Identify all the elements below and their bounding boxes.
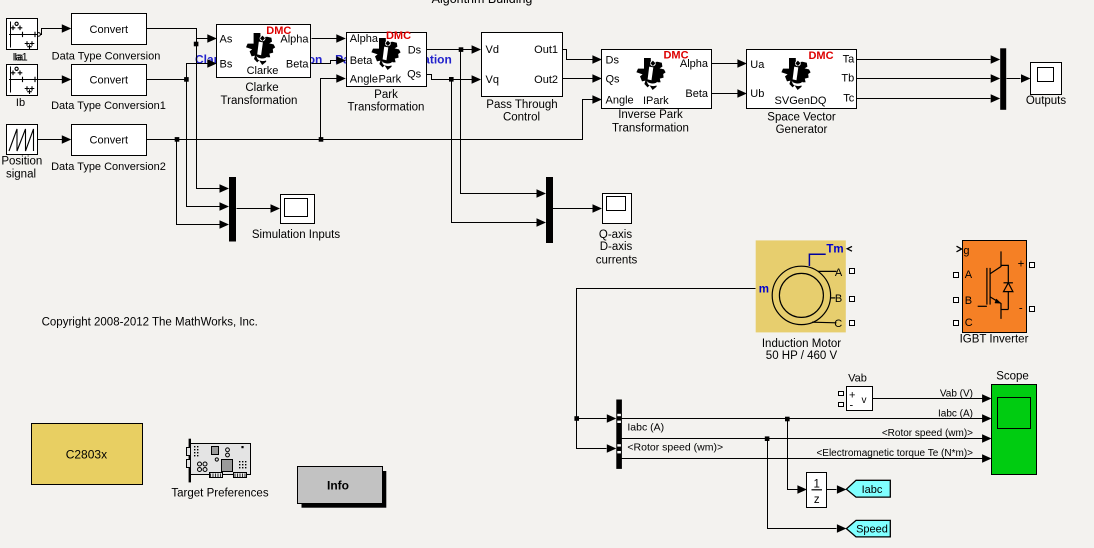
svg-text:DMC: DMC xyxy=(386,30,411,42)
Vab port square plus xyxy=(839,392,844,396)
svg-text:Inverse Park: Inverse Park xyxy=(618,109,683,121)
bus selector bar xyxy=(616,400,622,469)
svg-text:Q-axis: Q-axis xyxy=(599,229,632,241)
svg-text:<Electromagnetic torque Te (N*: <Electromagnetic torque Te (N*m)> xyxy=(816,448,973,459)
svg-text:Data Type Conversion1: Data Type Conversion1 xyxy=(51,100,166,112)
svg-text:Park: Park xyxy=(379,74,402,86)
svg-text:Ds: Ds xyxy=(606,54,620,66)
svg-text:g: g xyxy=(963,245,969,257)
svg-text:DMC: DMC xyxy=(663,50,688,62)
svg-text:DMC: DMC xyxy=(808,50,833,62)
junction dot on As branch xyxy=(194,42,199,47)
svg-text:Space Vector: Space Vector xyxy=(767,111,836,123)
block Scope xyxy=(992,385,1037,475)
motor port square C xyxy=(850,321,855,326)
svg-text:Scope: Scope xyxy=(996,370,1029,382)
IGBT port square B xyxy=(954,298,959,303)
wire Pass Through Out1 to IPark Ds xyxy=(563,50,593,60)
svg-text:m: m xyxy=(759,284,769,296)
wire bus selector rotor speed to scope and Speed tag xyxy=(622,439,983,529)
wire Ib to Data Type Conversion1 xyxy=(37,79,63,81)
block unit delay 1/z xyxy=(807,473,827,508)
svg-text:Algorithm Building: Algorithm Building xyxy=(432,0,533,6)
junction dot position to Park Angle xyxy=(319,137,324,142)
svg-text:signal: signal xyxy=(6,169,36,181)
wire Data Type Conversion to Clarke As and mux xyxy=(147,29,220,189)
Vab port square minus xyxy=(839,403,844,407)
wire Q-axis mux to Q-axis scope xyxy=(553,208,593,210)
svg-text:Pass Through: Pass Through xyxy=(486,99,557,111)
svg-text:DMC: DMC xyxy=(266,25,291,37)
block Target Preferences icon xyxy=(187,439,251,483)
wire bus selector torque to scope xyxy=(622,458,983,460)
svg-text:Ta: Ta xyxy=(843,53,856,65)
svg-text:Clarke: Clarke xyxy=(247,65,279,77)
junction dot Ds branch xyxy=(459,47,464,52)
svg-text:Tb: Tb xyxy=(841,73,854,85)
svg-text:Convert: Convert xyxy=(90,135,129,147)
IGBT port square minus xyxy=(1030,307,1035,312)
svg-text:Angle: Angle xyxy=(350,74,378,86)
svg-text:Iabc: Iabc xyxy=(862,484,883,496)
wire Vab measurement to scope xyxy=(872,398,983,400)
svg-text:Ib: Ib xyxy=(16,97,25,109)
svg-text:Ub: Ub xyxy=(750,88,764,100)
output mux bar xyxy=(1000,48,1006,110)
svg-text:Qs: Qs xyxy=(407,69,422,81)
svg-text:Vq: Vq xyxy=(486,74,499,86)
junction dot Iabc branch xyxy=(785,417,790,422)
block Clarke Transformation xyxy=(217,25,311,78)
svg-text:Alpha: Alpha xyxy=(350,33,379,45)
IGBT port square A xyxy=(954,273,959,278)
simulation mux bar xyxy=(229,177,236,242)
svg-text:Convert: Convert xyxy=(90,75,129,87)
wire SVGen Tb to output mux xyxy=(857,78,991,80)
wire motor m bus to bus selector xyxy=(577,289,756,449)
block C2803x xyxy=(32,424,143,485)
svg-text:Ua: Ua xyxy=(750,59,765,71)
svg-text:C: C xyxy=(834,318,842,330)
source block Position signal xyxy=(7,125,38,155)
svg-text:As: As xyxy=(220,34,233,46)
svg-text:Copyright 2008-2012 The MathWo: Copyright 2008-2012 The MathWorks, Inc. xyxy=(42,317,258,329)
wire Ia to Data Type Conversion xyxy=(37,29,63,37)
wire Park Ds to Pass Through Vd and Q-axis mux xyxy=(427,50,537,194)
svg-text:B: B xyxy=(965,295,972,307)
source block Ib xyxy=(7,65,38,96)
svg-text:Out2: Out2 xyxy=(534,74,558,86)
motor port square A xyxy=(850,269,855,274)
block Pass Through Control xyxy=(482,33,563,97)
svg-text:Generator: Generator xyxy=(776,124,828,136)
svg-text:D-axis: D-axis xyxy=(600,241,633,253)
svg-text:z: z xyxy=(814,494,820,506)
svg-text:Vd: Vd xyxy=(486,44,499,56)
svg-text:Beta: Beta xyxy=(286,58,310,70)
wire Clarke Alpha to Park Alpha xyxy=(312,38,337,40)
svg-text:Info: Info xyxy=(327,478,349,492)
motor Tm unconnected port chevron xyxy=(847,246,852,251)
svg-text:<Rotor speed (wm)>: <Rotor speed (wm)> xyxy=(882,428,973,439)
block Inverse Park Transformation xyxy=(602,50,712,109)
svg-text:Outputs: Outputs xyxy=(1026,95,1067,107)
svg-text:Induction Motor: Induction Motor xyxy=(762,338,841,350)
svg-text:Transformation: Transformation xyxy=(612,122,689,134)
Q-axis mux bar xyxy=(546,177,553,243)
junction dot position to mux xyxy=(175,137,180,142)
wire position signal net (to mux, Park Angle, IPark Angle) xyxy=(147,79,593,225)
svg-text:Target Preferences: Target Preferences xyxy=(171,487,268,499)
block Data Type Conversion2 xyxy=(72,125,147,156)
svg-text:Park: Park xyxy=(374,89,398,101)
wire SVGen Tc to output mux xyxy=(857,98,991,100)
svg-text:<Rotor speed (wm)>: <Rotor speed (wm)> xyxy=(627,442,723,454)
svg-text:C2803x: C2803x xyxy=(66,448,107,462)
block Simulation Inputs scope icon xyxy=(281,195,315,224)
svg-text:v: v xyxy=(862,395,867,406)
svg-text:50 HP / 460 V: 50 HP / 460 V xyxy=(766,350,838,362)
svg-text:Qs: Qs xyxy=(606,74,621,86)
source block Ia xyxy=(7,19,38,50)
block Park Transformation xyxy=(347,30,427,87)
wire IPark Alpha to SVGen Ua xyxy=(712,63,738,65)
wire IPark Beta to SVGen Ub xyxy=(712,93,738,95)
svg-text:currents: currents xyxy=(596,254,638,266)
wire Clarke Beta to Park Beta xyxy=(312,61,337,64)
block IGBT Inverter xyxy=(963,241,1027,333)
goto tag Iabc xyxy=(846,480,890,497)
block Q-axis D-axis currents scope icon xyxy=(603,194,632,224)
svg-text:Iabc (A): Iabc (A) xyxy=(938,408,973,419)
svg-text:Data Type Conversion: Data Type Conversion xyxy=(52,50,161,62)
svg-text:Data Type Conversion2: Data Type Conversion2 xyxy=(51,161,166,173)
svg-text:-: - xyxy=(1019,303,1023,315)
svg-text:+: + xyxy=(1018,259,1025,271)
svg-text:A: A xyxy=(965,269,973,281)
junction dot on Bs branch xyxy=(184,77,189,82)
wire Pass Through Out2 to IPark Qs xyxy=(563,78,593,80)
wire SVGen Ta to output mux xyxy=(857,59,991,61)
goto tag Speed xyxy=(846,520,890,537)
svg-text:Beta: Beta xyxy=(350,55,374,67)
svg-text:Transformation: Transformation xyxy=(221,95,298,107)
block Data Type Conversion xyxy=(72,14,147,45)
block Vab voltage measurement xyxy=(847,387,873,412)
svg-text:Beta: Beta xyxy=(685,88,709,100)
IGBT g unconnected port chevron xyxy=(957,246,962,252)
wire Simulation mux to Simulation Inputs block xyxy=(237,208,271,210)
svg-text:Bs: Bs xyxy=(220,58,233,70)
junction dot Qs branch xyxy=(449,77,454,82)
svg-text:B: B xyxy=(835,293,842,305)
wire Data Type Conversion1 to Clarke Bs and mux xyxy=(147,64,220,207)
block Induction Motor xyxy=(756,240,846,332)
svg-text:Speed: Speed xyxy=(856,524,888,536)
motor port square B xyxy=(850,297,855,302)
svg-text:Control: Control xyxy=(503,112,540,124)
svg-text:A: A xyxy=(835,267,843,279)
block Outputs xyxy=(1031,63,1062,95)
svg-text:Position: Position xyxy=(1,156,42,168)
svg-text:Ds: Ds xyxy=(408,44,422,56)
svg-text:Clarke: Clarke xyxy=(245,82,278,94)
block Info button xyxy=(298,467,387,508)
wire Position signal to Data Type Conversion2 xyxy=(37,139,63,141)
svg-text:SVGenDQ: SVGenDQ xyxy=(775,95,827,107)
svg-text:C: C xyxy=(965,317,973,329)
block Space Vector Generator xyxy=(747,50,857,109)
svg-text:Vab (V): Vab (V) xyxy=(940,388,973,399)
IGBT port square plus xyxy=(1030,263,1035,268)
block Data Type Conversion1 xyxy=(72,65,147,96)
wire output mux to Outputs block xyxy=(1007,78,1021,80)
svg-text:Tm: Tm xyxy=(826,243,843,255)
wire Park Qs to Pass Through Vq and Q-axis mux xyxy=(427,75,537,223)
svg-text:Out1: Out1 xyxy=(534,44,558,56)
wire bus selector Iabc to scope and unit delay xyxy=(622,419,983,490)
svg-text:Angle: Angle xyxy=(606,94,634,106)
svg-text:IGBT Inverter: IGBT Inverter xyxy=(960,334,1029,346)
svg-text:Tc: Tc xyxy=(843,93,855,105)
svg-text:Convert: Convert xyxy=(90,24,129,36)
svg-text:1: 1 xyxy=(813,479,819,491)
IGBT port square C xyxy=(954,321,959,326)
junction dot bus selector input xyxy=(574,416,579,421)
svg-text:Transformation: Transformation xyxy=(348,102,425,114)
svg-text:-: - xyxy=(850,400,854,412)
svg-text:Ia: Ia xyxy=(14,52,24,64)
junction dot rotor speed branch xyxy=(765,436,770,441)
svg-text:Vab: Vab xyxy=(848,372,867,384)
svg-text:IPark: IPark xyxy=(643,95,669,107)
svg-text:Iabc (A): Iabc (A) xyxy=(627,421,664,433)
svg-text:Simulation Inputs: Simulation Inputs xyxy=(252,229,340,241)
wire unit delay to Iabc tag xyxy=(827,489,837,491)
